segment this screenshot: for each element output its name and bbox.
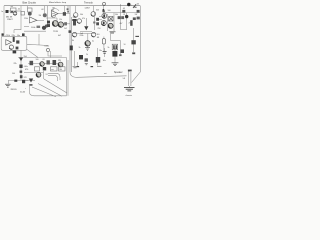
capacitor plate C5b (47, 24, 50, 27)
capacitor C10 (131, 40, 135, 44)
wire mixer rail2 (46, 18, 57, 21)
resistor mark mixer a (67, 8, 69, 10)
capacitor bar channel2 (13, 37, 15, 42)
svg-text:2N305: 2N305 (11, 89, 18, 91)
speaker top cap (128, 70, 132, 72)
svg-text:500: 500 (12, 73, 15, 75)
svg-text:5W: 5W (58, 60, 61, 62)
wire stub to label (14, 30, 21, 33)
grid resistor box (21, 12, 25, 16)
op-amp U4 (52, 11, 59, 17)
svg-text:470k: 470k (6, 35, 10, 37)
relay K1 (112, 44, 117, 50)
capacitor plates C5 (47, 21, 50, 24)
tube V5 (108, 23, 113, 28)
blob x94 (93, 22, 95, 24)
wire vertical x97 row4 (97, 48, 99, 66)
wire vertical x74 row4 (74, 51, 76, 66)
svg-text:2k: 2k (86, 54, 88, 56)
op-amp U1 (30, 17, 38, 23)
tube V7 (9, 45, 13, 49)
svg-text:Mixer/effects loop: Mixer/effects loop (49, 1, 67, 4)
wire vertical x77 row4 (77, 62, 79, 66)
capacitor C16 (96, 57, 100, 63)
resistor R5 (37, 26, 41, 28)
resistor R18 (85, 58, 88, 61)
gnd mark right (132, 52, 135, 54)
svg-text:50k: 50k (80, 14, 83, 16)
wire vertical x94 (93, 12, 95, 31)
cap marks channel2 (16, 47, 19, 50)
wire loop L2 (48, 75, 58, 81)
svg-text:25: 25 (129, 23, 131, 25)
fuse box row a (35, 67, 40, 71)
wire mixer out (58, 13, 70, 15)
svg-text:220k: 220k (80, 35, 84, 37)
resistor R22 (118, 16, 121, 19)
wire speaker pair (129, 71, 131, 87)
svg-text:4k7: 4k7 (58, 35, 61, 37)
wire power box bottom (30, 84, 67, 96)
small cap node A (102, 10, 104, 12)
svg-text:100k: 100k (31, 27, 35, 29)
tube V3a (74, 13, 78, 17)
tube V3a dark arc (74, 16, 77, 18)
tube V4b electrode (103, 22, 105, 25)
wire right diagonal to speaker (132, 72, 141, 83)
svg-text:.05: .05 (123, 8, 126, 10)
ground G2 (73, 67, 78, 68)
wire tube out (64, 23, 71, 25)
svg-text:2k2: 2k2 (64, 28, 67, 30)
capacitor plate CP1 (96, 18, 99, 21)
tube V4a (102, 13, 107, 18)
tube V1a cathode (14, 13, 17, 16)
wire right border (139, 6, 141, 72)
tube V2b (58, 22, 63, 27)
diode D2 (84, 26, 88, 30)
wire y80.5 psu (24, 80, 35, 82)
tube V6 arc (77, 22, 80, 24)
resistor R15 tick (135, 35, 139, 37)
cap C11b mark (20, 71, 23, 73)
resistor R23 (121, 16, 124, 19)
svg-text:1-8: 1-8 (123, 78, 126, 80)
svg-text:22k: 22k (14, 63, 17, 65)
svg-text:In: In (2, 11, 4, 13)
wire vertical x110 row3 (110, 32, 112, 41)
wire cap C14 stem (104, 48, 106, 57)
tube V7 arc (10, 48, 13, 49)
wire diag fan2 (38, 84, 62, 97)
tube V4a electrode (103, 14, 105, 17)
wire node V1 vertical (20, 6, 22, 30)
diode D5 (29, 79, 33, 83)
wire cap C15 stems (114, 48, 116, 62)
capacitor C14 bars (103, 52, 107, 54)
wire vertical x44 (44, 6, 46, 13)
wire diag fan3 (32, 87, 56, 97)
connector P1 (119, 54, 122, 56)
tube V4b (101, 21, 106, 26)
svg-text:8k: 8k (72, 40, 74, 42)
gnd dash a (77, 66, 80, 67)
pot box VR1 (11, 8, 17, 13)
svg-text:X2: X2 (46, 74, 48, 76)
capacitor C4 (137, 10, 140, 13)
gnd dash b (91, 66, 94, 67)
transistor Q15 (58, 62, 63, 67)
svg-text:.68: .68 (41, 9, 44, 11)
resistor R10 (137, 17, 140, 20)
wire vertical x64 (64, 6, 66, 12)
wire vertical x43 psu (43, 71, 45, 79)
resistor R17 (47, 60, 50, 64)
capacitor plate CP2 (96, 22, 99, 25)
wire left border (3, 6, 5, 37)
wire row3 stub (87, 46, 89, 47)
wire mid L (48, 52, 62, 56)
tube row3 mid1 (72, 32, 76, 36)
resistor R6 (64, 22, 67, 25)
resistor R14 (102, 39, 105, 44)
svg-text:50-60: 50-60 (20, 91, 26, 93)
svg-text:100: 100 (108, 10, 111, 12)
wire fb arc (52, 9, 60, 11)
resistor R7 (73, 20, 76, 26)
ground chassis G5 (124, 88, 135, 91)
svg-text:12AX7: 12AX7 (7, 18, 13, 21)
pot wiper mark (11, 11, 13, 13)
wire B+ bus pair (70, 6, 72, 72)
wire vertical x93 tremolo (93, 6, 95, 12)
wire vertical x120 row3 (120, 41, 122, 56)
svg-text:4k7: 4k7 (120, 23, 123, 25)
bias resistor box (28, 8, 33, 12)
svg-text:470: 470 (25, 69, 28, 71)
wire psu feed vertical (20, 50, 22, 80)
tube V4b arc (102, 24, 105, 26)
svg-text:1k: 1k (79, 47, 81, 49)
ground G1 (85, 48, 90, 51)
wire y29.6 right (121, 29, 127, 31)
wire vertical x47 (47, 6, 49, 26)
tick x121 above (120, 4, 122, 6)
wire power box right edge pair (67, 58, 69, 96)
wire gnd stub (7, 81, 9, 84)
svg-text:.01: .01 (123, 14, 126, 16)
op-amp U2 (6, 40, 12, 45)
wire top border (4, 5, 140, 7)
wire y16 stub right (99, 15, 102, 17)
wire row3 top (72, 33, 96, 35)
wire vertical x86 (85, 18, 87, 26)
tube row3 mid2 arc (92, 35, 95, 37)
wire bus curve to speaker (70, 72, 127, 77)
svg-text:10u: 10u (103, 60, 106, 62)
blob mid right (133, 17, 136, 20)
wire dash x98 (97, 65, 102, 67)
wire vertical x68 (67, 6, 69, 13)
wire loop L1 (48, 73, 60, 80)
wire vertical x39 row3 (38, 34, 40, 45)
tube row3 mid1 arc (73, 35, 76, 37)
tube V3b (91, 12, 96, 17)
capacitor on bus (70, 46, 73, 51)
tube V3b dark arc (91, 15, 94, 17)
label row3 header a (2, 33, 4, 35)
wire input jack to stage (9, 10, 22, 12)
svg-text:10: 10 (124, 44, 126, 46)
tube V6 (77, 19, 81, 23)
svg-text:15k: 15k (59, 19, 62, 21)
wire psu rail3 (8, 80, 28, 82)
wire opamp1 out (37, 19, 44, 21)
dark block row (43, 67, 46, 70)
wire psu riser x50 (50, 51, 52, 58)
wire diag fan1 (44, 79, 67, 93)
wire vertical x103 (103, 6, 105, 14)
svg-text:56k: 56k (115, 14, 118, 16)
tube V4a arc (102, 17, 105, 19)
junction node A (102, 9, 104, 11)
svg-text:+: + (25, 88, 26, 90)
wire vertical x103 row3 (103, 37, 105, 53)
cap on rail3 (22, 80, 25, 83)
wire y72.5 psu (24, 72, 44, 74)
svg-text:Speaker: Speaker (114, 71, 123, 74)
svg-text:Bias Circuits: Bias Circuits (23, 2, 37, 5)
cap C11c (20, 75, 23, 78)
wire psu rail1 (18, 57, 67, 59)
svg-text:10u: 10u (17, 35, 20, 37)
resistor mark mixer b (67, 11, 69, 13)
capacitor C12 (53, 60, 57, 65)
svg-text:1W: 1W (135, 14, 138, 16)
terminal tab TB1 (13, 51, 17, 54)
switch box row b (51, 67, 58, 71)
svg-text:22k: 22k (12, 35, 15, 37)
wire channel2 to rail (27, 49, 38, 57)
filter dot D1 (127, 3, 130, 6)
wire vertical x87 row3 (87, 34, 89, 41)
wire vertical x27 (27, 6, 29, 8)
transistor Q16 (36, 72, 41, 77)
capacitor C3 (122, 10, 125, 13)
ground G6 (110, 32, 116, 33)
pot P2 (46, 48, 49, 51)
svg-text:250: 250 (98, 28, 101, 30)
wire y26 stub (24, 26, 29, 28)
tube V2a (52, 21, 58, 27)
svg-text:.68: .68 (97, 37, 100, 39)
wire y31 bias (24, 30, 46, 32)
wire vertical x120 (120, 6, 122, 30)
wire speaker gnd stem (128, 86, 130, 88)
mark under D5 (30, 84, 33, 86)
svg-text:1N4: 1N4 (24, 56, 27, 58)
resistor R11 (16, 40, 19, 43)
svg-text:47k: 47k (82, 18, 85, 20)
gnd bar under R18 (85, 64, 88, 65)
blob right row4 (120, 49, 124, 53)
svg-text:0.022: 0.022 (45, 45, 50, 47)
svg-text:7199: 7199 (53, 31, 59, 33)
outlet box row c (59, 67, 66, 71)
capacitor C7 (130, 20, 132, 26)
svg-text:chassis: chassis (126, 95, 132, 97)
svg-text:220k: 220k (24, 18, 28, 20)
capacitor C13 (79, 55, 83, 59)
capacitor C15 (112, 51, 117, 57)
wire y40.6 right (111, 40, 121, 42)
svg-text:100: 100 (36, 59, 39, 61)
ground G3 (112, 63, 119, 66)
bias cap blob (43, 13, 47, 17)
svg-text:10k: 10k (73, 17, 76, 19)
tube circle mixer (52, 14, 56, 18)
svg-text:Tremolo: Tremolo (84, 1, 93, 4)
wire psu rail2 (28, 63, 58, 65)
svg-text:+: + (131, 4, 132, 6)
svg-text:5k: 5k (108, 47, 110, 49)
transistor Q7 (42, 26, 46, 30)
bias transistor Q2 (28, 12, 32, 16)
wire vertical x126 (126, 13, 128, 30)
blob row3 header b (22, 33, 25, 36)
svg-text:.02: .02 (18, 9, 21, 11)
pilot lamp above border (103, 2, 106, 5)
resistor R7 top (72, 19, 76, 21)
junction cap on bus (69, 30, 72, 33)
diode D3 (125, 15, 128, 18)
capacitor C11 (19, 65, 22, 69)
diode D4 (19, 58, 23, 62)
tube row3 mid2 (91, 32, 95, 36)
svg-text:1k5: 1k5 (97, 34, 100, 36)
wire curve row3 (27, 44, 48, 45)
bias blob x47 (45, 24, 48, 27)
ground G4 (5, 84, 11, 87)
svg-text:+50u: +50u (24, 66, 28, 68)
box channel2 (1, 36, 27, 50)
transistor Q13 (85, 41, 90, 46)
svg-text:16u: 16u (99, 50, 102, 52)
wire vertical x75 tremolo (75, 6, 77, 13)
transistor Q6 leads (133, 4, 137, 8)
capacitor C20 (63, 12, 66, 16)
svg-text:4u: 4u (92, 41, 94, 43)
wire top right rail (104, 12, 140, 14)
wire y31.5 mid (80, 31, 92, 33)
tube V1a (13, 12, 17, 16)
svg-text:12AU7: 12AU7 (85, 7, 91, 10)
transformer T1 (109, 17, 113, 22)
junction blob rail3 (14, 80, 17, 82)
wire vertical x114 (113, 13, 115, 31)
svg-text:3k3: 3k3 (96, 9, 99, 11)
transistor Q14 (40, 62, 45, 67)
wire plate stub (99, 18, 102, 20)
wire vertical x133 right (133, 28, 135, 52)
input jack J1 (6, 10, 9, 13)
wire vertical x107 (107, 14, 109, 31)
resistor R16 (30, 61, 34, 65)
